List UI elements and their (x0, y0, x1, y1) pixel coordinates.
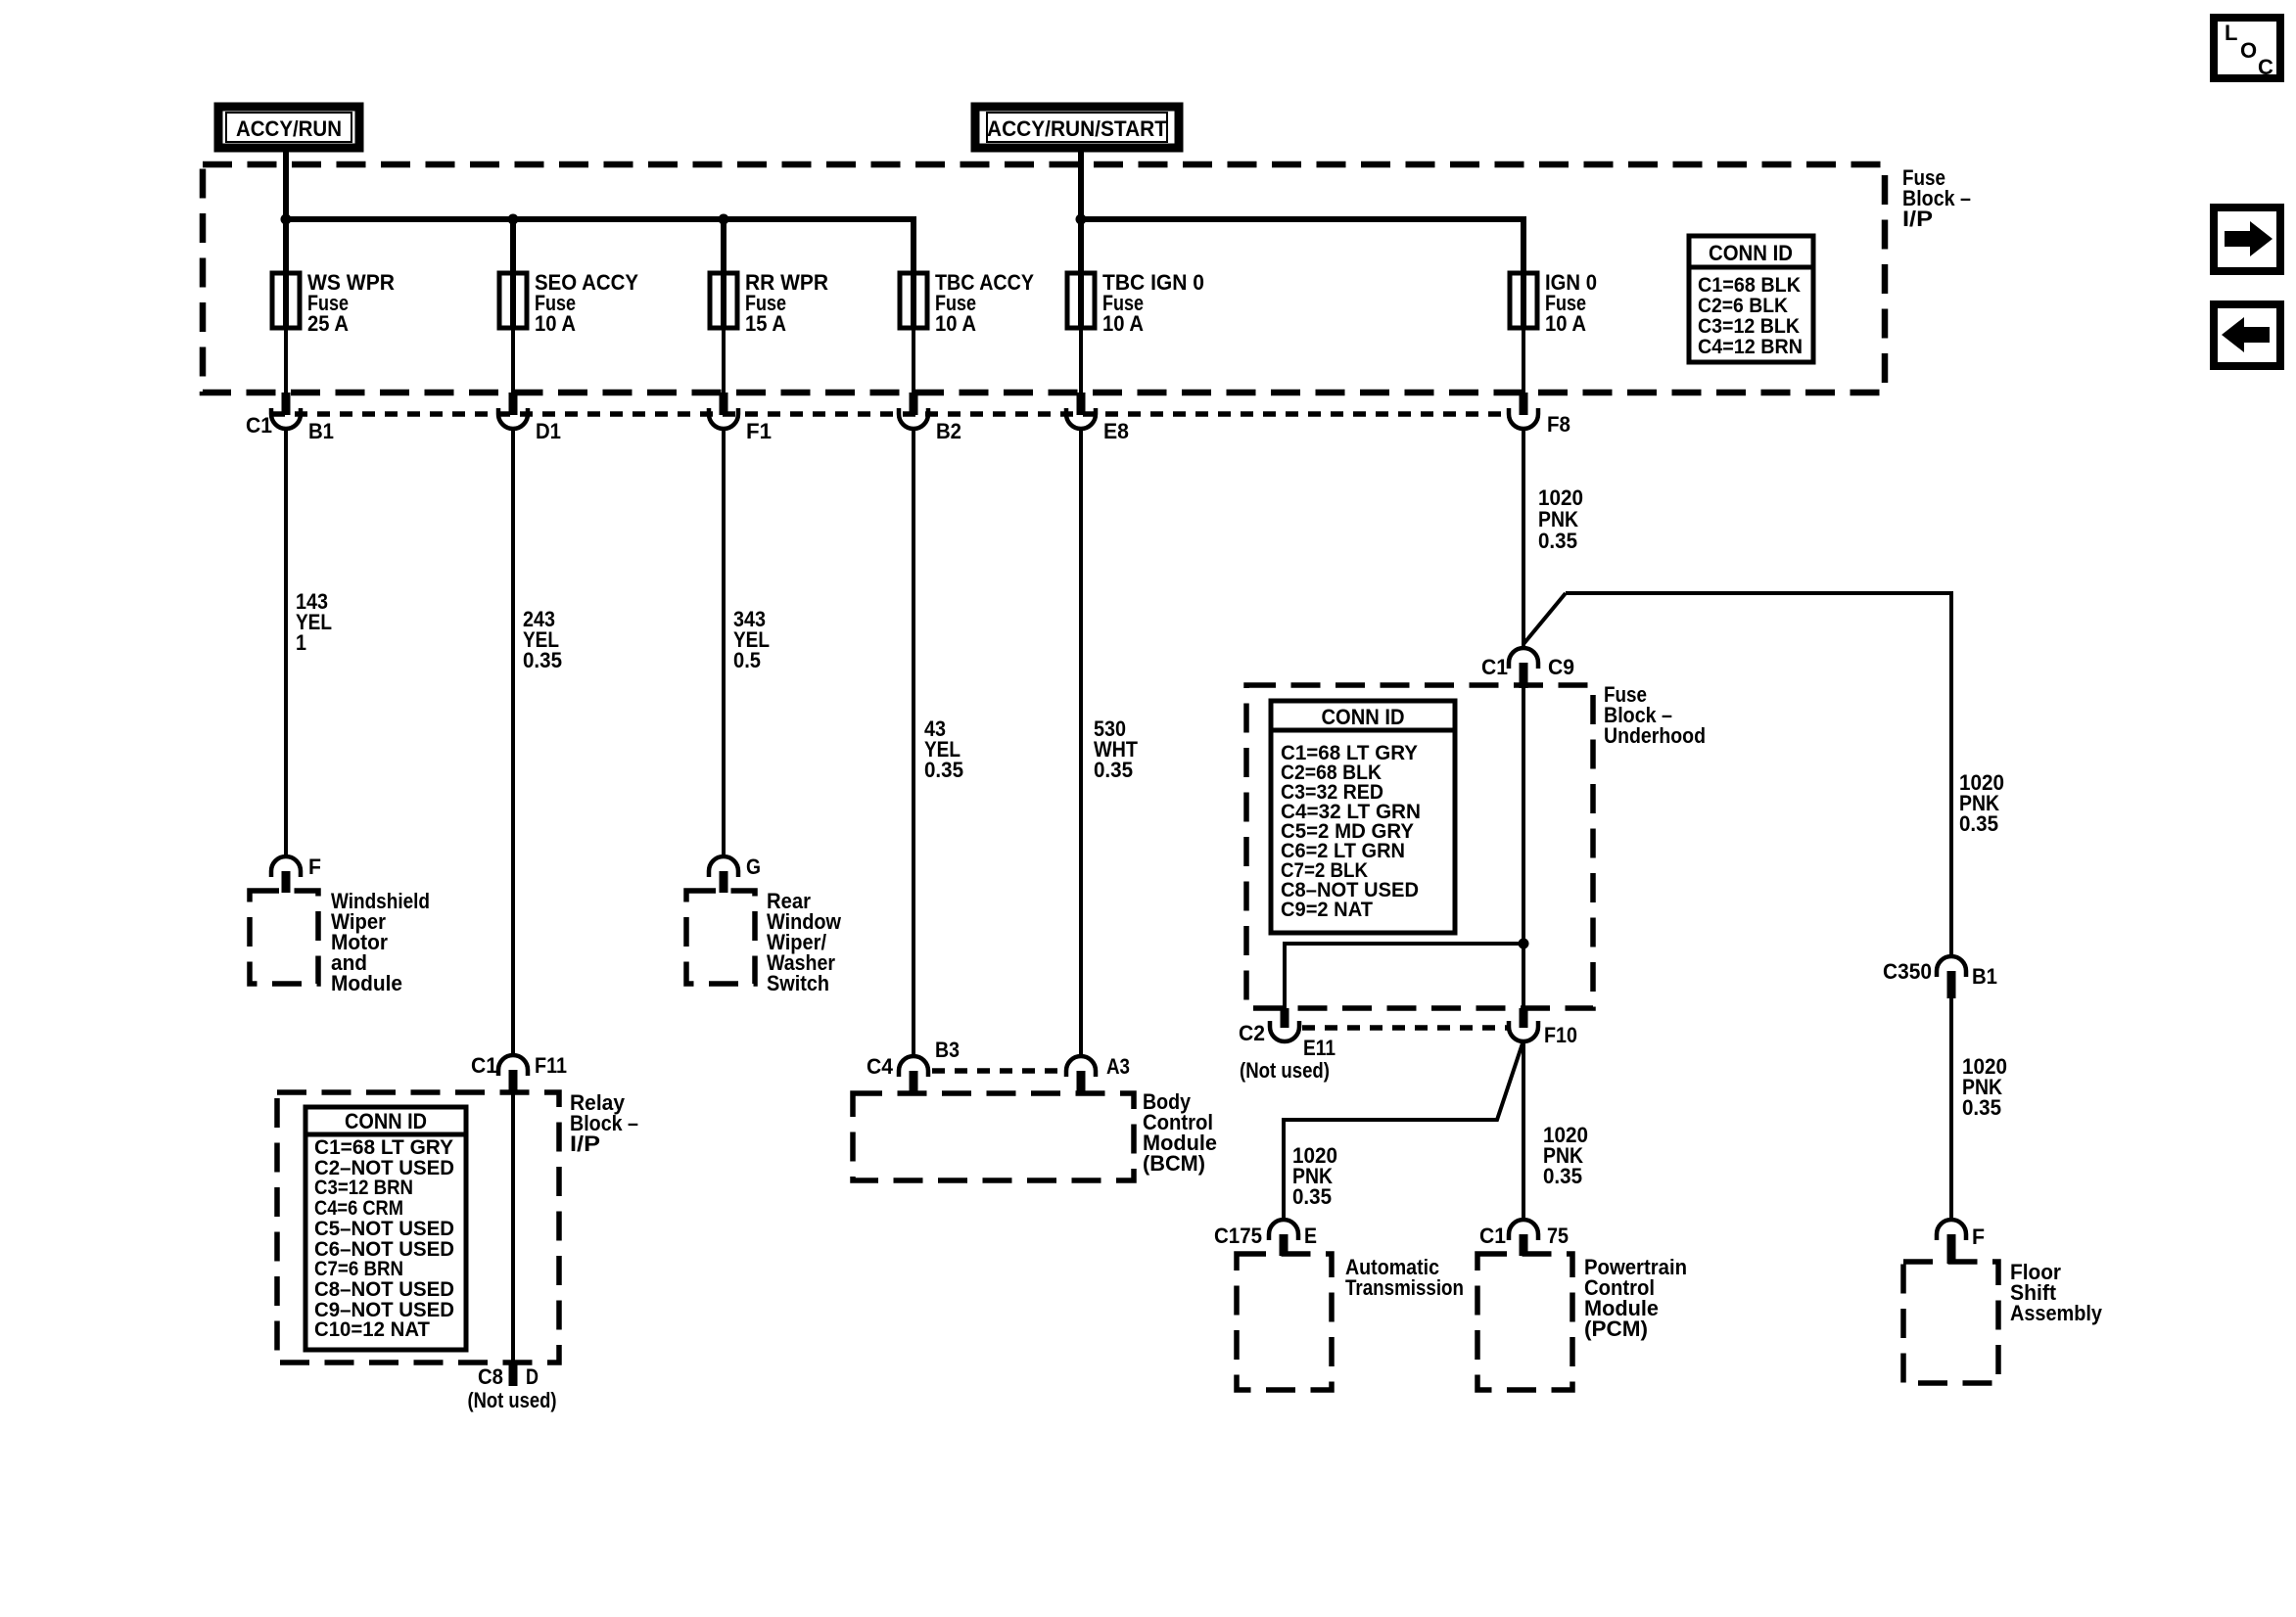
connector F10 at underhood fuse block (1509, 1008, 1577, 1047)
svg-text:1: 1 (296, 630, 306, 655)
junction dot SEO ACCY feed (508, 214, 519, 225)
wire branch to E11 not used (1285, 944, 1523, 1008)
wire across top to right side column (1566, 593, 1951, 956)
svg-text:0.35: 0.35 (1962, 1095, 2001, 1120)
svg-text:(Not used): (Not used) (1240, 1058, 1330, 1083)
wire circuit 243 YEL to relay block (511, 428, 515, 1056)
svg-text:C2: C2 (1239, 1021, 1265, 1045)
connector row dotted line under fuse block I/P (272, 411, 1508, 417)
wire RR WPR feed drop (721, 219, 726, 273)
connector F1 at fuse block I/P (709, 393, 772, 443)
Fuse Block - Underhood dashed box (1246, 682, 1706, 1008)
wire label 1020 PNK 0.35 floor shift (1962, 1054, 2007, 1120)
wire circuit 43 YEL to BCM (912, 428, 915, 1057)
svg-text:E: E (1304, 1224, 1317, 1248)
svg-text:F10: F10 (1544, 1023, 1577, 1047)
wire diagonal branch F10 to automatic transmission (1284, 1040, 1523, 1221)
junction dot TBC IGN 0 feed (1076, 214, 1087, 225)
dotted connector row at BCM (932, 1068, 1063, 1074)
wire 1020 PNK from F8 to underhood fuse block (1522, 428, 1525, 649)
svg-text:Underhood: Underhood (1604, 723, 1706, 748)
svg-text:0.35: 0.35 (924, 758, 963, 782)
Floor Shift Assembly box (1903, 1260, 2103, 1383)
connector F windshield wiper motor (271, 855, 321, 893)
svg-text:75: 75 (1547, 1224, 1569, 1248)
Powertrain Control Module PCM box (1477, 1254, 1687, 1390)
connector D1 at fuse block I/P (498, 393, 561, 443)
svg-text:D1: D1 (536, 419, 561, 443)
wire SEO ACCY feed drop (510, 219, 516, 273)
svg-text:C10=12 NAT: C10=12 NAT (314, 1318, 430, 1341)
connector C1 F11 at relay block (471, 1053, 567, 1093)
svg-text:0.5: 0.5 (733, 648, 761, 672)
svg-text:G: G (746, 855, 761, 879)
Rear Window Wiper/Washer Switch box (686, 889, 842, 995)
fuse TBC IGN 0 10 A (1067, 270, 1204, 393)
label Fuse Block - I/P (1902, 165, 1971, 231)
connector C175 E at automatic transmission (1214, 1220, 1317, 1256)
Fuse Block - I/P dashed box (203, 164, 1885, 393)
wire label 530 WHT 0.35 (1094, 716, 1139, 782)
svg-text:I/P: I/P (570, 1132, 600, 1156)
connector A3 at BCM (1066, 1054, 1130, 1094)
fuse SEO ACCY 10 A (499, 270, 638, 393)
svg-text:F8: F8 (1547, 412, 1570, 437)
wire from ACCY/RUN/START down into fuse block (1078, 152, 1084, 273)
svg-text:CONN ID: CONN ID (1709, 241, 1793, 265)
wire label 43 YEL 0.35 (924, 716, 963, 782)
wire through relay block (511, 1093, 515, 1363)
svg-text:C8–NOT USED: C8–NOT USED (314, 1278, 454, 1301)
CONN ID table relay block (305, 1107, 466, 1350)
svg-text:C2=6 BLK: C2=6 BLK (1698, 295, 1788, 317)
wire F10 to PCM (1522, 1040, 1525, 1221)
svg-text:C1=68 BLK: C1=68 BLK (1698, 274, 1801, 297)
fuse WS WPR 25 A (272, 270, 395, 393)
svg-text:C4: C4 (867, 1054, 894, 1079)
svg-text:C1: C1 (246, 413, 272, 438)
power feed box ACCY/RUN (218, 107, 359, 148)
Relay Block - I/P dashed box (277, 1090, 638, 1363)
svg-text:F: F (308, 855, 321, 879)
junction dot WS WPR feed (281, 214, 292, 225)
wire C350 to floor shift assembly (1949, 998, 1953, 1221)
junction dot RR WPR feed (719, 214, 729, 225)
connector C8 D not used stub (468, 1363, 557, 1412)
svg-text:C9=2 NAT: C9=2 NAT (1281, 899, 1373, 921)
svg-text:I/P: I/P (1902, 207, 1933, 231)
connector C350 B1 (1883, 956, 1997, 998)
svg-text:C7=6 BRN: C7=6 BRN (314, 1258, 403, 1280)
svg-text:C1: C1 (1481, 655, 1508, 679)
svg-text:0.35: 0.35 (1538, 529, 1577, 553)
connector C1 C9 at underhood fuse block (1481, 648, 1574, 688)
connector E8 at fuse block I/P (1066, 393, 1129, 443)
connector C1 75 at PCM (1479, 1220, 1569, 1256)
svg-text:(PCM): (PCM) (1584, 1317, 1648, 1341)
svg-text:C3=12 BRN: C3=12 BRN (314, 1177, 413, 1199)
dotted connector row at underhood block (1302, 1025, 1508, 1031)
svg-text:C3=12 BLK: C3=12 BLK (1698, 315, 1800, 338)
svg-text:L: L (2225, 21, 2237, 45)
svg-text:E8: E8 (1103, 419, 1129, 443)
svg-text:C350: C350 (1883, 959, 1932, 984)
svg-text:Module: Module (331, 971, 402, 995)
svg-text:25 A: 25 A (307, 311, 349, 336)
wire label 1020 PNK 0.35 below F8 (1538, 485, 1583, 553)
svg-text:C4=6 CRM: C4=6 CRM (314, 1197, 403, 1220)
svg-text:D: D (526, 1364, 539, 1389)
connector C4 B3 at BCM (867, 1038, 960, 1094)
svg-text:B1: B1 (308, 419, 334, 443)
CONN ID table underhood fuse block (1271, 701, 1455, 933)
svg-text:C: C (2258, 55, 2273, 79)
svg-text:F1: F1 (746, 419, 772, 443)
svg-text:15 A: 15 A (745, 311, 786, 336)
wire label 243 YEL 0.35 (523, 607, 562, 672)
svg-text:0.35: 0.35 (1094, 758, 1133, 782)
svg-text:10 A: 10 A (535, 311, 576, 336)
svg-text:(BCM): (BCM) (1143, 1151, 1205, 1176)
power feed box ACCY/RUN/START (975, 107, 1179, 148)
wire label 1020 PNK 0.35 at automatic transmission (1292, 1143, 1337, 1209)
wire through underhood fuse block (1522, 687, 1525, 1008)
CONN ID table Fuse Block I/P (1689, 236, 1813, 362)
svg-text:ACCY/RUN/START: ACCY/RUN/START (987, 116, 1168, 141)
svg-text:0.35: 0.35 (1292, 1184, 1332, 1209)
svg-text:CONN ID: CONN ID (345, 1109, 427, 1133)
LOC legend box (2214, 18, 2280, 79)
svg-text:A3: A3 (1106, 1054, 1130, 1079)
svg-text:10 A: 10 A (935, 311, 976, 336)
Automatic Transmission box (1237, 1254, 1464, 1390)
svg-text:ACCY/RUN: ACCY/RUN (236, 116, 342, 141)
svg-text:CONN ID: CONN ID (1322, 705, 1405, 729)
svg-text:10 A: 10 A (1545, 311, 1586, 336)
wire ACCY/RUN/START bus (1081, 219, 1523, 273)
svg-text:Transmission: Transmission (1345, 1275, 1464, 1300)
wire circuit 530 WHT to BCM (1079, 428, 1083, 1057)
svg-text:C5–NOT USED: C5–NOT USED (314, 1218, 454, 1240)
svg-text:C9: C9 (1548, 655, 1574, 679)
svg-text:0.35: 0.35 (1543, 1164, 1582, 1188)
wire label 343 YEL 0.5 (733, 607, 770, 672)
svg-text:0.35: 0.35 (523, 648, 562, 672)
legend arrow box pointing left (2214, 304, 2280, 366)
fuse RR WPR 15 A (710, 270, 828, 393)
wire ACCY/RUN bus (286, 219, 914, 273)
fuse IGN 0 10 A (1510, 270, 1597, 393)
svg-text:C175: C175 (1214, 1224, 1262, 1248)
svg-text:E11: E11 (1303, 1036, 1335, 1060)
wire circuit 143 YEL to windshield wiper motor (284, 428, 288, 857)
fuse TBC ACCY 10 A (900, 270, 1034, 393)
svg-text:C4=12 BRN: C4=12 BRN (1698, 336, 1803, 358)
wire label 1020 PNK 0.35 at PCM (1543, 1123, 1588, 1188)
svg-text:B2: B2 (936, 419, 961, 443)
connector B2 at fuse block I/P (899, 393, 961, 443)
svg-text:B1: B1 (1972, 964, 1997, 989)
svg-text:C8: C8 (478, 1364, 503, 1389)
wire label 1020 PNK 0.35 right column (1959, 770, 2004, 836)
Body Control Module BCM box (853, 1089, 1217, 1180)
svg-text:Switch: Switch (767, 971, 829, 995)
svg-text:10 A: 10 A (1102, 311, 1144, 336)
connector F8 at fuse block I/P (1509, 393, 1570, 437)
svg-text:F11: F11 (535, 1053, 567, 1078)
junction dot underhood branch (1519, 939, 1529, 949)
legend arrow box pointing right (2214, 208, 2280, 271)
svg-text:Assembly: Assembly (2010, 1301, 2103, 1325)
connector F at floor shift assembly (1937, 1220, 1985, 1264)
connector C2 E11 not used (1239, 1008, 1335, 1083)
connector C1 B1 at fuse block I/P (246, 393, 334, 443)
svg-text:C1: C1 (1479, 1224, 1506, 1248)
connector G rear window wiper switch (709, 855, 761, 893)
svg-text:B3: B3 (935, 1038, 960, 1062)
wire circuit 343 YEL to rear window wiper switch (722, 428, 726, 857)
svg-text:C1: C1 (471, 1053, 497, 1078)
svg-text:F: F (1972, 1224, 1985, 1249)
Windshield Wiper Motor and Module box (250, 889, 430, 995)
wire label 143 YEL 1 (296, 589, 332, 655)
svg-text:C1=68 LT GRY: C1=68 LT GRY (314, 1136, 453, 1159)
svg-text:(Not used): (Not used) (468, 1388, 557, 1412)
svg-text:0.35: 0.35 (1959, 811, 1998, 836)
wire from ACCY/RUN down into fuse block (283, 152, 289, 273)
svg-text:O: O (2240, 38, 2257, 63)
wire branch diagonal toward floor shift feed (1523, 593, 1566, 644)
